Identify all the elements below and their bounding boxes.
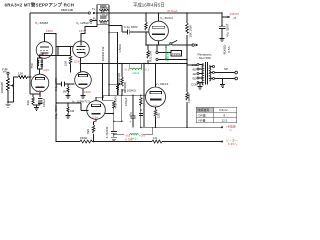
svg-text:COM: COM (191, 83, 199, 87)
svg-text:22K: 22K (64, 61, 68, 66)
svg-text:+B: +B (233, 16, 237, 20)
svg-text:+: + (130, 120, 132, 124)
svg-text:2.2V: 2.2V (92, 116, 98, 120)
svg-text:100KΩB: 100KΩB (0, 82, 4, 93)
svg-text:100μF: 100μF (124, 97, 128, 106)
svg-text:10K 10W: 10K 10W (189, 25, 193, 38)
svg-text:0.1μ 400V: 0.1μ 400V (54, 105, 58, 119)
svg-text:6.3Vへ: 6.3Vへ (228, 142, 237, 146)
svg-text:2.6V: 2.6V (36, 89, 42, 93)
svg-text:150V: 150V (46, 29, 53, 33)
svg-text:100Ω(B): 100Ω(B) (123, 82, 127, 93)
svg-text:1M: 1M (63, 90, 68, 94)
svg-text:0.5mV: 0.5mV (219, 108, 228, 112)
svg-text:100KΩ: 100KΩ (187, 93, 191, 103)
svg-text:TPW14: TPW14 (172, 52, 182, 56)
svg-text:Tx: Tx (92, 7, 96, 11)
svg-text:150Ω: 150Ω (80, 136, 88, 140)
svg-text:178.4V: 178.4V (166, 51, 170, 61)
svg-text:60-CT06: 60-CT06 (199, 56, 211, 60)
svg-text:820: 820 (26, 100, 30, 105)
svg-text:166V: 166V (84, 90, 91, 94)
svg-text:22Ω: 22Ω (157, 112, 161, 118)
svg-text:DF値: DF値 (199, 112, 206, 117)
svg-text:12.6V: 12.6V (74, 59, 82, 63)
svg-text:R22 2W: R22 2W (149, 51, 153, 62)
svg-text:100μF: 100μF (42, 98, 46, 107)
svg-text:750Ω: 750Ω (100, 21, 108, 25)
svg-text:+0.1: +0.1 (143, 68, 149, 72)
svg-text:0.1μ 400V: 0.1μ 400V (54, 77, 58, 91)
svg-text:12K: 12K (18, 72, 23, 76)
svg-text:100KΩ 1W: 100KΩ 1W (101, 47, 105, 62)
svg-text:47μ/400V: 47μ/400V (114, 96, 118, 109)
svg-text:残留雑音: 残留雑音 (197, 107, 209, 112)
svg-text:+40μF: +40μF (100, 13, 109, 17)
svg-text:12.5: 12.5 (222, 119, 228, 123)
svg-text:+0.5: +0.5 (139, 134, 145, 138)
svg-text:187V: 187V (79, 29, 86, 33)
svg-text:MRF14B: MRF14B (61, 8, 73, 12)
svg-text:NF量: NF量 (199, 118, 206, 123)
svg-text:0.1μ 630V: 0.1μ 630V (124, 25, 138, 29)
svg-text:1M: 1M (70, 109, 75, 113)
svg-text:P₁: P₁ (93, 17, 96, 21)
svg-text:47.8mA: 47.8mA (167, 9, 177, 13)
svg-text:4.9V: 4.9V (43, 68, 49, 72)
svg-text:V₄ 6RA3: V₄ 6RA3 (160, 16, 173, 20)
svg-text:0.5A: 0.5A (227, 46, 231, 52)
svg-text:へ: へ (229, 128, 232, 132)
svg-text:平成16年4月5日: 平成16年4月5日 (133, 2, 165, 9)
svg-text:820: 820 (86, 129, 90, 134)
svg-text:V₁ 12BH7A: V₁ 12BH7A (76, 21, 92, 25)
svg-text:4.7K/1W: 4.7K/1W (105, 127, 109, 139)
svg-text:750: 750 (30, 63, 34, 68)
svg-text:47μ 250V: 47μ 250V (226, 24, 230, 37)
svg-text:17.5V: 17.5V (151, 104, 159, 108)
svg-text:V₅ 6RA3: V₅ 6RA3 (156, 82, 169, 86)
svg-text:0.75V: 0.75V (125, 137, 133, 141)
svg-text:SP: SP (224, 67, 228, 71)
svg-text:+24.2: +24.2 (132, 71, 140, 75)
svg-text:−0.1: −0.1 (124, 68, 130, 72)
svg-text:1.5KΩ: 1.5KΩ (118, 44, 122, 53)
svg-text:V₂ 6BM8: V₂ 6BM8 (35, 21, 48, 25)
